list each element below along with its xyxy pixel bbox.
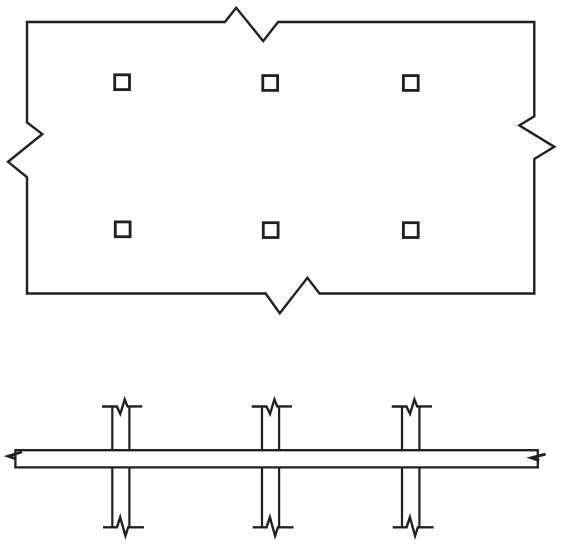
section column 3: top break tick with zigzag	[392, 400, 432, 414]
plan view: slab outline with break (zigzag) symbols on all four edges	[8, 8, 554, 313]
column A2 (plan, bottom-left square)	[115, 222, 130, 237]
section view: slab top chord line	[15, 449, 537, 451]
section column 1: right vertical line below slab	[128, 467, 130, 527]
section column 3: left vertical line below slab	[401, 467, 403, 527]
section view: slab right end break bolt	[531, 454, 546, 461]
section view: slab bottom chord line	[15, 466, 537, 468]
section column 1: top break tick with zigzag	[102, 400, 142, 414]
column B1 (plan, top-middle square)	[263, 76, 278, 91]
section column 1: bottom break tick with zigzag	[103, 517, 144, 536]
section column 3: left vertical line above slab	[401, 407, 403, 451]
column B2 (plan, bottom-middle square)	[263, 223, 278, 238]
section column 3: right vertical line above slab	[418, 407, 420, 451]
column C1 (plan, top-right square)	[403, 76, 418, 91]
section column 2: bottom break tick with zigzag	[253, 517, 294, 536]
section column 1: right vertical line above slab	[128, 407, 130, 451]
section view: slab left cut end line	[14, 449, 16, 468]
section column 2: left vertical line below slab	[261, 467, 263, 527]
section view: slab right cut end line	[537, 449, 539, 468]
section column 2: right vertical line below slab	[278, 467, 280, 527]
section column 3: bottom break tick with zigzag	[393, 517, 434, 536]
section column 1: left vertical line below slab	[111, 467, 113, 527]
column A1 (plan, top-left square)	[115, 75, 130, 90]
section view: slab left end break bolt	[8, 452, 22, 459]
section column 3: right vertical line below slab	[418, 467, 420, 527]
section column 2: right vertical line above slab	[278, 407, 280, 451]
section column 2: top break tick with zigzag	[252, 400, 292, 414]
column C2 (plan, bottom-right square)	[403, 223, 418, 238]
section column 1: left vertical line above slab	[111, 407, 113, 451]
section column 2: left vertical line above slab	[261, 407, 263, 451]
